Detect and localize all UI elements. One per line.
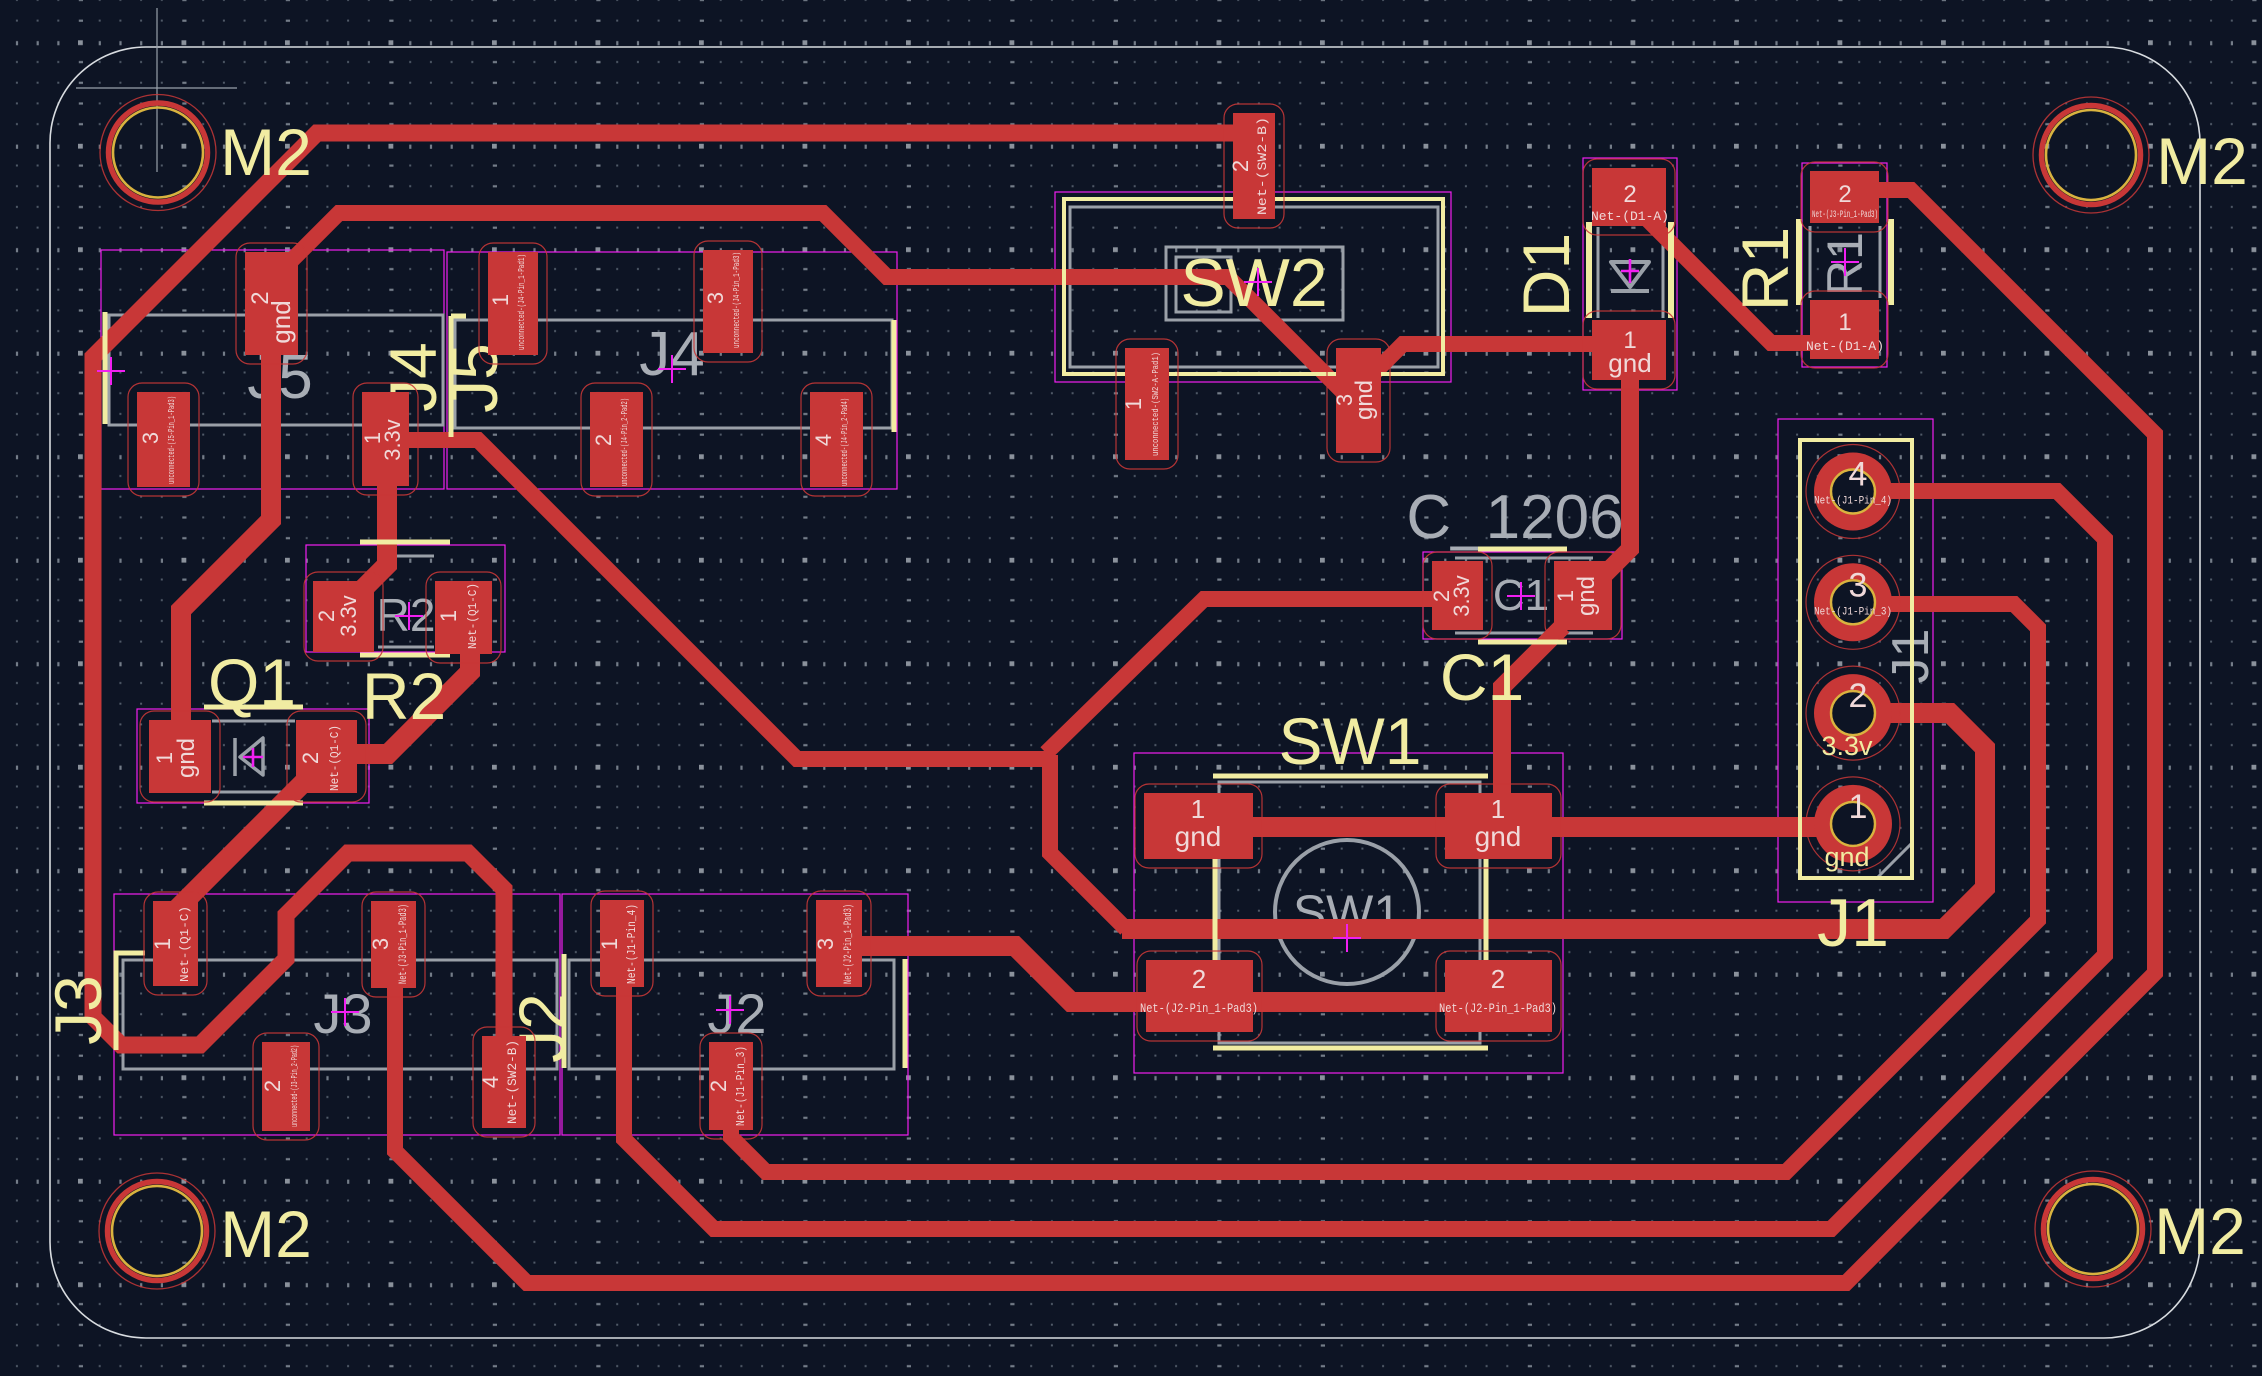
- diode D1 fab outline: [1598, 227, 1663, 318]
- svg-text:3: 3: [813, 938, 838, 950]
- wire net J3-Pin1: R1 pad2 to J3 pad3: [395, 190, 2155, 1283]
- svg-text:2: 2: [1228, 160, 1253, 172]
- svg-text:unconnected-(J5-Pin_1-Pad3): unconnected-(J5-Pin_1-Pad3): [167, 396, 177, 484]
- pad 2 of D1 (Net-D1-A): [1583, 159, 1675, 235]
- connector J3 fab outline: [123, 960, 557, 1069]
- switch SW2 value box: [1166, 247, 1343, 320]
- pad 1 of J2 (Net-J1-Pin_4): [591, 891, 653, 996]
- svg-text:Net-(D1-A): Net-(D1-A): [1806, 339, 1884, 354]
- resistor R1 fab outline: [1810, 226, 1880, 298]
- pad 1 of SW1 left (gnd): [1135, 784, 1262, 868]
- pad 1 of C1 (gnd): [1545, 552, 1621, 639]
- svg-text:2: 2: [1491, 964, 1505, 994]
- pin 4 of J1 (Net-J1-Pin_4): [1806, 445, 1900, 539]
- connector J3 courtyard: [114, 894, 560, 1135]
- wire net gnd: C1 pad1 to SW1 pad1: [1502, 626, 1563, 815]
- wire net 3.3v: J5 pad1 to junction: [409, 440, 1055, 759]
- wire net gnd: SW1 pad1 row to J1 pad1: [1180, 817, 1853, 837]
- svg-text:gnd: gnd: [1475, 821, 1522, 852]
- svg-text:R1: R1: [1728, 227, 1802, 311]
- svg-text:SW1: SW1: [1278, 704, 1421, 778]
- mounting hole M2 bottom-left: [99, 1173, 215, 1289]
- pad 2 of R2 (3.3v): [304, 572, 383, 661]
- svg-text:3: 3: [1849, 566, 1868, 604]
- pad 4 of J3 (Net-SW2-B): [473, 1027, 535, 1137]
- svg-text:Net-(J2-Pin_1-Pad3): Net-(J2-Pin_1-Pad3): [1439, 1001, 1557, 1016]
- svg-text:1: 1: [1849, 788, 1868, 826]
- svg-text:Net-(J2-Pin_1-Pad3): Net-(J2-Pin_1-Pad3): [843, 904, 855, 984]
- wire net gnd: SW2 pad3 to D1 pad1: [1368, 344, 1600, 379]
- wire net gnd: J5 pad2 to SW2 pad3: [290, 213, 1352, 401]
- svg-text:R2: R2: [362, 659, 446, 733]
- pad 3 of J5: [128, 383, 199, 496]
- resistor R2 fab outline: [378, 556, 434, 647]
- wire net J2-Pin1-Pad3: J2 pad3 to SW1 pad2 row: [840, 946, 1500, 1002]
- switch SW1 courtyard: [1134, 753, 1563, 1073]
- wire net 3.3v: J5 pad1 to R2 pad2: [360, 430, 387, 592]
- svg-text:unconnected-(SW2-A-Pad1): unconnected-(SW2-A-Pad1): [1151, 352, 1161, 456]
- svg-text:2: 2: [1192, 964, 1206, 994]
- svg-text:gnd: gnd: [1608, 348, 1651, 378]
- switch SW2 fab box: [1070, 207, 1438, 367]
- pad 1 of SW1 right (gnd): [1436, 784, 1561, 868]
- pad 2 of C1 (3.3v): [1423, 552, 1492, 639]
- svg-text:Net-(J3-Pin_1-Pad3): Net-(J3-Pin_1-Pad3): [398, 904, 410, 984]
- svg-text:1: 1: [150, 938, 175, 950]
- svg-text:4: 4: [811, 434, 836, 446]
- connector J4 fab outline: [455, 320, 892, 428]
- svg-text:M2: M2: [220, 115, 312, 189]
- pad 1 of J4: [479, 243, 547, 364]
- pad 2 of SW2 (Net-SW2-B): [1224, 104, 1284, 228]
- svg-text:J2: J2: [707, 982, 766, 1045]
- connector J2 fab outline: [569, 960, 894, 1069]
- pad 2 of J2 (Net-J1-Pin_3): [700, 1033, 762, 1139]
- wire net SW2-B: SW2 pad2 to J2 pad4: [93, 133, 1245, 1075]
- connector J1 courtyard: [1778, 419, 1933, 902]
- pin 1 of J1 (gnd): [1806, 777, 1900, 871]
- svg-text:3.3v: 3.3v: [1449, 575, 1474, 617]
- svg-text:Net-(Q1-C): Net-(Q1-C): [466, 583, 480, 649]
- svg-text:gnd: gnd: [1351, 380, 1378, 420]
- svg-text:4: 4: [1849, 456, 1868, 494]
- svg-text:J3: J3: [313, 982, 372, 1045]
- svg-text:4: 4: [478, 1076, 503, 1088]
- svg-text:C_1206: C_1206: [1406, 483, 1623, 552]
- svg-text:Net-(J1-Pin_4): Net-(J1-Pin_4): [625, 904, 639, 984]
- svg-text:unconnected-(J4-Pin_1-Pad1): unconnected-(J4-Pin_1-Pad1): [517, 254, 527, 350]
- connector J4 courtyard: [447, 252, 897, 489]
- svg-text:M2: M2: [2154, 1194, 2246, 1268]
- pad 4 of J4: [801, 383, 872, 496]
- svg-text:3: 3: [368, 938, 393, 950]
- wire net gnd: D1 pad1 to C1 pad1: [1597, 360, 1630, 582]
- svg-text:Net-(J1-Pin_3): Net-(J1-Pin_3): [1814, 606, 1892, 618]
- pad 2 of J4: [581, 383, 652, 496]
- connector J5 fab outline: [109, 315, 443, 425]
- svg-text:3: 3: [138, 432, 163, 444]
- pad 2 of J5 (gnd): [236, 243, 307, 364]
- wire net 3.3v: junction down: [1050, 755, 1126, 929]
- svg-text:gnd: gnd: [266, 300, 296, 343]
- svg-text:1: 1: [1191, 794, 1205, 824]
- svg-text:3.3v: 3.3v: [336, 595, 361, 637]
- capacitor C1 fab outline: [1455, 558, 1593, 633]
- pad 1 of R2 (Net-Q1-C): [426, 572, 501, 663]
- svg-text:1: 1: [1491, 794, 1505, 824]
- wire net Q1-C: R2 pad1 to Q1 pad2: [340, 600, 470, 754]
- pad 1 of SW2: [1116, 339, 1178, 469]
- wire net gnd: J5 pad2 to Q1 pad1: [181, 330, 271, 750]
- connector J1 fab chamfer: [1878, 842, 1913, 877]
- svg-text:gnd: gnd: [1824, 842, 1869, 872]
- svg-text:2: 2: [298, 752, 323, 764]
- mounting hole M2 top-right: [2033, 97, 2149, 213]
- pad 2 of SW1 right (Net-J2-Pin_1-Pad3): [1436, 951, 1561, 1041]
- pad 3 of J3 (Net-J3-Pin_1-Pad3): [362, 892, 425, 997]
- svg-text:unconnected-(J4-Pin_2-Pad2): unconnected-(J4-Pin_2-Pad2): [620, 398, 630, 486]
- svg-text:Net-(SW2-B): Net-(SW2-B): [1255, 117, 1270, 215]
- pad 1 of Q1 (gnd): [140, 711, 220, 802]
- wire net J1-Pin4: J1 pad4 to J2 pad1: [624, 491, 2105, 1229]
- pad 3 of J2 (Net-J2-Pin_1-Pad3): [807, 891, 871, 996]
- diode D1 symbol: [1611, 262, 1649, 291]
- pad 1 of R1 (Net-D1-A): [1801, 291, 1888, 368]
- svg-text:M2: M2: [220, 1197, 312, 1271]
- svg-text:Net-(J3-Pin_1-Pad3): Net-(J3-Pin_1-Pad3): [1812, 209, 1878, 221]
- svg-text:unconnected-(J4-Pin_1-Pad3): unconnected-(J4-Pin_1-Pad3): [732, 252, 742, 348]
- svg-text:2: 2: [1623, 181, 1636, 208]
- pad 3 of SW2 (gnd): [1327, 339, 1390, 462]
- mounting hole M2 bottom-right: [2035, 1171, 2151, 1287]
- svg-text:J3: J3: [41, 975, 115, 1045]
- capacitor C1 courtyard: [1423, 552, 1622, 639]
- wire net 3.3v: junction to C1 pad2: [1046, 599, 1440, 753]
- svg-text:gnd: gnd: [173, 738, 200, 778]
- svg-text:3: 3: [703, 292, 728, 304]
- switch SW2 courtyard: [1055, 192, 1451, 382]
- pin 3 of J1 (Net-J1-Pin_3): [1806, 555, 1900, 649]
- svg-text:1: 1: [1121, 398, 1146, 410]
- svg-text:Net-(Q1-C): Net-(Q1-C): [178, 906, 192, 982]
- connector J5 courtyard: [101, 250, 444, 489]
- mounting hole M2 top-left: [100, 95, 216, 211]
- svg-text:Net-(J1-Pin_4): Net-(J1-Pin_4): [1814, 496, 1892, 508]
- svg-text:Net-(J1-Pin_3): Net-(J1-Pin_3): [734, 1046, 748, 1126]
- svg-text:3.3v: 3.3v: [380, 419, 405, 461]
- transistor Q1 fab outline: [212, 721, 295, 792]
- switch SW1 fab box: [1219, 782, 1480, 1043]
- pad 2 of J3: [253, 1033, 319, 1140]
- pad 3 of J4: [694, 241, 762, 362]
- svg-text:unconnected-(J3-Pin_2-Pad2): unconnected-(J3-Pin_2-Pad2): [290, 1045, 300, 1127]
- connector J2 courtyard: [562, 894, 908, 1135]
- wire net Q1-C: Q1 pad2 to J3 pad1: [176, 760, 326, 945]
- svg-text:gnd: gnd: [1573, 576, 1600, 616]
- svg-text:2: 2: [260, 1080, 285, 1092]
- svg-text:2: 2: [591, 434, 616, 446]
- transistor Q1 courtyard: [137, 709, 369, 803]
- pad 1 of J5 (3.3v): [353, 383, 418, 495]
- svg-text:1: 1: [597, 938, 622, 950]
- svg-text:Net-(D1-A): Net-(D1-A): [1591, 209, 1669, 224]
- wire net 3.3v: across SW1 to J1 pad2: [1122, 713, 1985, 929]
- pad 1 of J3 (Net-Q1-C): [144, 892, 207, 995]
- pad 1 of D1 (gnd): [1583, 311, 1675, 389]
- switch SW1 button circle: [1275, 840, 1419, 984]
- diode D1 courtyard: [1583, 158, 1677, 390]
- svg-text:unconnected-(J4-Pin_2-Pad4): unconnected-(J4-Pin_2-Pad4): [840, 398, 850, 486]
- svg-text:2: 2: [706, 1080, 731, 1092]
- svg-text:gnd: gnd: [1175, 821, 1222, 852]
- svg-text:2: 2: [1849, 677, 1868, 715]
- wire net J1-Pin3: J1 pad3 to J2 pad2: [731, 604, 2038, 1172]
- svg-text:J1: J1: [1817, 885, 1889, 961]
- pad 2 of R1 (Net-J3-Pin_1-Pad3): [1801, 162, 1888, 232]
- svg-text:C1: C1: [1440, 640, 1524, 714]
- svg-text:Net-(Q1-C): Net-(Q1-C): [328, 725, 342, 791]
- transistor Q1 symbol: [235, 738, 263, 776]
- pad 2 of Q1 (Net-Q1-C): [287, 711, 366, 802]
- pin 2 of J1 (3.3v): [1806, 666, 1900, 760]
- resistor R2 courtyard: [306, 545, 505, 652]
- svg-text:2: 2: [1838, 181, 1851, 208]
- resistor R1 courtyard: [1802, 163, 1887, 367]
- wire net D1-A: D1 pad2 to R1 pad1: [1638, 210, 1830, 343]
- footprint origin crosshair (M2 top-left): [76, 8, 237, 172]
- pad 2 of SW1 left (Net-J2-Pin_1-Pad3): [1137, 951, 1262, 1041]
- svg-text:1: 1: [436, 610, 461, 622]
- svg-text:Net-(SW2-B): Net-(SW2-B): [505, 1040, 520, 1124]
- svg-text:D1: D1: [1509, 233, 1583, 317]
- svg-text:1: 1: [1838, 309, 1851, 336]
- svg-text:Net-(J2-Pin_1-Pad3): Net-(J2-Pin_1-Pad3): [1140, 1001, 1258, 1016]
- svg-text:1: 1: [488, 294, 513, 306]
- svg-text:M2: M2: [2156, 124, 2248, 198]
- svg-text:3.3v: 3.3v: [1821, 731, 1873, 761]
